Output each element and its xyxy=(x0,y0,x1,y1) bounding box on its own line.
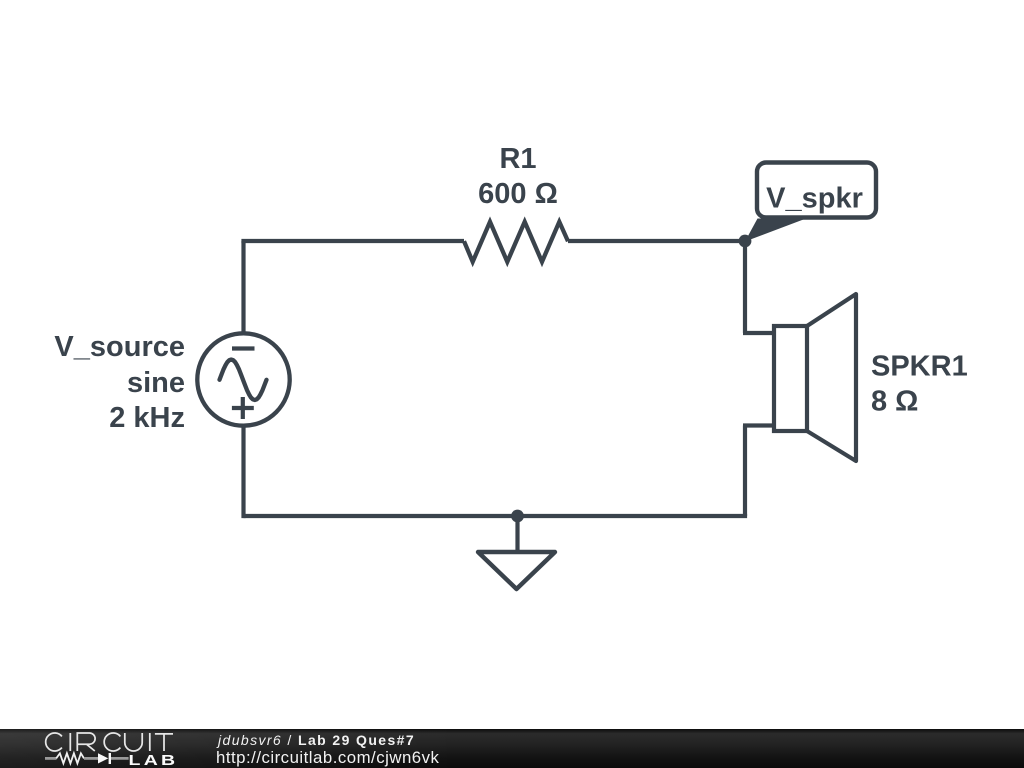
wire: right vertical lower xyxy=(743,426,747,517)
logo wire left xyxy=(45,757,57,760)
voltage source plus sign xyxy=(232,397,254,419)
logo letter I xyxy=(69,733,71,751)
svg-text:600 Ω: 600 Ω xyxy=(478,178,558,210)
ground symbol triangle xyxy=(478,552,555,589)
logo letter C xyxy=(46,733,62,751)
svg-text:sine: sine xyxy=(127,367,185,399)
wire: speaker top lead xyxy=(743,331,774,335)
junction dot at V_spkr node xyxy=(739,235,752,248)
svg-text:LAB: LAB xyxy=(129,751,179,768)
logo diode bar xyxy=(109,753,111,764)
svg-text:V_source: V_source xyxy=(54,331,185,363)
CircuitLab logo xyxy=(0,729,1024,768)
voltage source minus sign xyxy=(232,346,255,350)
footer title line xyxy=(218,732,415,748)
logo diode triangle xyxy=(98,753,108,763)
footer url line xyxy=(216,748,439,768)
svg-text:V_spkr: V_spkr xyxy=(766,182,863,214)
svg-text:8 Ω: 8 Ω xyxy=(871,386,918,418)
footer bar xyxy=(0,729,1024,768)
svg-text:SPKR1: SPKR1 xyxy=(871,351,968,383)
logo letter C xyxy=(104,733,120,751)
voltage source sine symbol xyxy=(220,360,267,401)
wire: bottom rail xyxy=(244,514,748,518)
wire: right vertical upper xyxy=(743,239,747,333)
logo letter T xyxy=(155,734,173,751)
wire: left vertical lower (source bottom lead) xyxy=(241,426,245,519)
speaker SPKR1 body xyxy=(774,294,856,461)
wire: speaker bottom lead xyxy=(743,423,774,427)
logo letter I xyxy=(149,733,151,751)
node V_spkr callout box xyxy=(757,163,876,218)
wire: top rail left segment xyxy=(241,239,464,243)
logo letter U xyxy=(125,733,142,751)
svg-text:R1: R1 xyxy=(499,143,536,175)
wire: ground stub xyxy=(515,516,519,552)
resistor R1 zigzag xyxy=(464,222,568,262)
voltage source V_source circle xyxy=(197,333,289,425)
logo wire right xyxy=(111,757,129,760)
junction dot at ground node xyxy=(511,510,524,523)
logo letter R xyxy=(77,733,95,751)
node V_spkr callout tail xyxy=(745,219,806,242)
wire: top rail right segment xyxy=(568,239,745,243)
wire: left vertical upper (source top lead) xyxy=(241,241,245,334)
logo wire mid xyxy=(84,757,98,760)
svg-text:2 kHz: 2 kHz xyxy=(109,402,185,434)
logo resistor zigzag xyxy=(56,753,84,763)
